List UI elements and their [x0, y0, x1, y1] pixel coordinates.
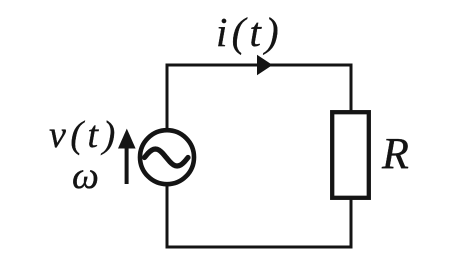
wire: top horizontal (source to resistor) [166, 64, 353, 67]
label v(t) [49, 113, 120, 157]
wire: left vertical upper (top wire down to source top terminal) [166, 64, 169, 132]
voltage reference arrow v(t) [125, 147, 129, 184]
wire: bottom horizontal (return path) [166, 246, 353, 249]
wire: left vertical lower (source bottom terminal down to bottom wire) [166, 183, 169, 249]
label i(t) [216, 8, 283, 56]
label omega [72, 154, 99, 198]
wire: right vertical lower (resistor bottom terminal down to bottom wire) [350, 197, 353, 249]
AC source sine wave [145, 149, 189, 166]
AC source V1 circle [140, 130, 194, 184]
label R [382, 128, 409, 179]
current direction arrowhead on top wire [257, 55, 273, 75]
resistor R body [332, 112, 369, 198]
wire: right vertical upper (top wire down to resistor top terminal) [350, 64, 353, 114]
